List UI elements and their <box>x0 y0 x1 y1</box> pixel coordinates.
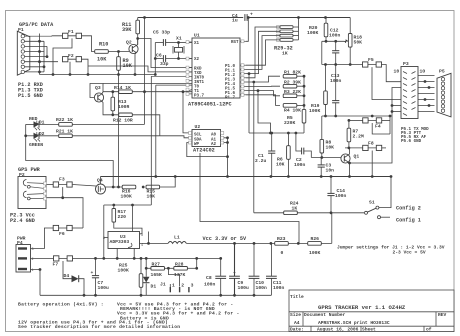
svg-text:220K: 220K <box>284 120 295 126</box>
svg-text:F3: F3 <box>59 177 65 183</box>
wire Q3 base/R14 <box>103 91 192 93</box>
trimmer R18 <box>348 34 352 48</box>
wire U1 INT0 to regulator shutdown <box>150 76 152 205</box>
wire R22 to vcc column <box>72 123 145 125</box>
junction dots P1 bus <box>38 40 41 43</box>
wire R12 right <box>132 115 160 136</box>
resistor R27 <box>151 267 165 271</box>
ground rail left <box>40 74 156 76</box>
resistor R2 <box>283 84 297 88</box>
svg-text:Q3: Q3 <box>95 85 101 91</box>
svg-text:T0: T0 <box>194 86 200 90</box>
svg-text:APRSTRAK.SCH print HO3013C: APRSTRAK.SCH print HO3013C <box>318 320 390 326</box>
long left power column <box>118 75 120 188</box>
resistor R23 <box>275 242 289 246</box>
svg-text:10K: 10K <box>97 57 107 63</box>
svg-text:R23: R23 <box>277 236 286 242</box>
svg-text:D1: D1 <box>151 284 157 290</box>
svg-text:Sheet: Sheet <box>362 327 376 333</box>
wire P4.3 to F6 <box>31 228 54 249</box>
svg-text:C5 33p: C5 33p <box>153 30 170 36</box>
SEC-BOTTOM <box>18 213 445 330</box>
SEC-POWER <box>16 225 284 296</box>
IC U3 ADP3303 <box>108 232 140 249</box>
resistor R22 <box>59 123 73 127</box>
U3 right pin out <box>140 232 169 244</box>
svg-text:33p: 33p <box>160 61 169 67</box>
svg-text:C8: C8 <box>206 275 212 281</box>
svg-text:Title: Title <box>290 294 304 300</box>
wire Q2 collector to R11 <box>136 40 137 45</box>
title text <box>290 294 447 333</box>
wire P3 left feed PTT <box>350 88 402 164</box>
resistor R10 <box>95 50 109 54</box>
wire S1 to config2 riser <box>379 177 391 208</box>
wire Q1 collector <box>348 148 349 155</box>
svg-text:R22 1K: R22 1K <box>56 117 73 123</box>
svg-text:10: 10 <box>394 69 400 75</box>
svg-text:100n: 100n <box>335 193 346 199</box>
svg-text:100R: 100R <box>118 104 129 110</box>
diode D1 <box>145 258 147 295</box>
svg-text:X2: X2 <box>194 58 200 62</box>
svg-text:100K: 100K <box>309 250 320 256</box>
svg-text:Document Number: Document Number <box>304 312 346 318</box>
SEC-RIGHTMID <box>0 0 1 1</box>
svg-text:P1.6: P1.6 <box>225 92 236 96</box>
wire X1 to U1 X1 pin <box>179 42 193 44</box>
svg-text:10n: 10n <box>326 168 335 174</box>
P1 pin wires to bus <box>25 34 59 75</box>
svg-text:3: 3 <box>141 233 143 237</box>
wire TXD from F2 <box>88 66 192 72</box>
U1 left pin names <box>194 42 205 99</box>
wire Q3 emitter to R12 <box>102 101 118 115</box>
resistor R4 <box>283 104 297 108</box>
wire wiper line y41 <box>322 41 345 64</box>
resistor R5 <box>302 109 306 123</box>
svg-text:1u: 1u <box>232 18 238 24</box>
svg-text:P1.2: P1.2 <box>225 74 236 78</box>
svg-text:SCL: SCL <box>194 134 202 138</box>
resistor R1 <box>283 74 297 78</box>
resistor R14 <box>119 90 133 94</box>
transistor Q1 <box>341 154 350 163</box>
diode D4 tap <box>63 261 72 279</box>
svg-text:100n: 100n <box>256 285 267 291</box>
wire LD2 anode <box>26 135 59 137</box>
capacitor C10 <box>249 276 260 278</box>
wire R15 right riser to rail <box>159 177 175 188</box>
wires P3 to P5 <box>418 76 435 112</box>
wire P2 pin1 to F3 <box>47 184 54 186</box>
resistor R6 <box>287 146 291 160</box>
svg-text:P3.7: P3.7 <box>194 95 205 99</box>
svg-text:F4: F4 <box>375 124 381 130</box>
svg-text:GPRS TRACKER ver 1.1 OZ4HZ: GPRS TRACKER ver 1.1 OZ4HZ <box>318 304 406 311</box>
ferrite F6 <box>53 225 73 230</box>
svg-text:Vcc 3.3V or 5V: Vcc 3.3V or 5V <box>203 236 247 242</box>
svg-text:R21 1K: R21 1K <box>56 128 73 134</box>
resistor R3 <box>283 94 297 98</box>
title block box <box>289 290 454 332</box>
svg-text:AT89C4051-12PC: AT89C4051-12PC <box>188 102 232 108</box>
config wire y212.8 <box>254 212 364 214</box>
svg-text:L1: L1 <box>174 235 180 241</box>
wire P4.2 input wire <box>31 257 54 259</box>
svg-text:SDA: SDA <box>194 138 202 142</box>
long vertical P1.6 column down <box>258 91 271 133</box>
resistor R9 <box>117 57 121 71</box>
resistor R19 <box>324 91 328 105</box>
svg-text:Config 2: Config 2 <box>396 206 421 212</box>
wire F1 to R10 <box>82 36 95 52</box>
U2 right pin boxes <box>221 132 224 145</box>
capacitor C11 <box>266 276 277 278</box>
svg-text:C6: C6 <box>156 53 162 59</box>
svg-text:P2.4 GND: P2.4 GND <box>10 218 35 224</box>
resistor R8 <box>320 139 324 153</box>
U1 right pin number boxes <box>241 40 244 96</box>
svg-text:of: of <box>426 327 432 333</box>
svg-text:P5: P5 <box>439 69 445 75</box>
R29-32 right bus to Vcc rail <box>293 18 299 40</box>
U2 right pins bus <box>224 138 228 177</box>
svg-text:A2: A2 <box>211 143 217 147</box>
wire WP loop <box>187 143 228 157</box>
svg-text:2.2M: 2.2M <box>353 134 364 140</box>
svg-text:See tracker description for mo: See tracker description for more detaile… <box>18 324 180 330</box>
base node wire <box>311 157 342 159</box>
ferrite F8 <box>362 145 382 150</box>
resistor R16 <box>122 185 136 189</box>
ladder right bus <box>297 76 305 110</box>
connector P1 DB9 <box>17 31 30 75</box>
svg-text:2: 2 <box>181 283 184 289</box>
wire RST to rail <box>246 18 248 42</box>
svg-text:R12 10R: R12 10R <box>113 118 133 124</box>
transistor Q3 <box>94 93 103 102</box>
svg-text:RXD: RXD <box>194 68 202 72</box>
svg-text:100K: 100K <box>309 108 320 114</box>
svg-text:0: 0 <box>281 250 284 256</box>
svg-text:F8: F8 <box>368 141 374 147</box>
jumper J1 feed <box>168 268 179 286</box>
U1 left pin number boxes <box>186 41 189 96</box>
wire Q4 out to R16 <box>106 186 123 188</box>
svg-text:Q2: Q2 <box>126 40 132 46</box>
svg-text:100u: 100u <box>98 285 109 291</box>
svg-text:R4 10K: R4 10K <box>284 108 301 114</box>
wire Q2 collector to RXD <box>138 39 192 68</box>
svg-text:Battery operation (4x1.5V) :: Battery operation (4x1.5V) : <box>18 301 104 307</box>
resistor R13 <box>111 97 115 111</box>
svg-text:INT1: INT1 <box>194 81 205 85</box>
resistor R28 <box>174 267 188 271</box>
svg-text:D4: D4 <box>64 273 70 279</box>
wire Q1 emitter <box>348 162 349 176</box>
SEC-GPSPWR <box>10 75 299 259</box>
wire R21 to sda column <box>72 135 160 137</box>
resistor R15 <box>146 185 160 189</box>
resistor R17 <box>112 209 116 223</box>
wire y116 <box>322 115 390 117</box>
resistor network R29-32 <box>274 26 293 57</box>
U1 right pin stubs <box>240 41 246 95</box>
ferrite F1 <box>53 33 82 74</box>
resistor R24 <box>284 211 298 215</box>
IC U1 AT89C4051 box <box>192 38 240 98</box>
svg-text:P1.0: P1.0 <box>225 65 236 69</box>
transistor Q4 (mosfet) <box>96 184 106 194</box>
svg-text:+: + <box>250 13 253 18</box>
svg-text:AT24C02: AT24C02 <box>193 148 215 154</box>
wire SCL riser <box>183 92 189 133</box>
svg-text:P1.1: P1.1 <box>225 70 236 74</box>
svg-text:2.2u: 2.2u <box>255 158 266 164</box>
resistor R20 <box>324 23 328 37</box>
ferrite F7 <box>53 256 73 261</box>
svg-text:REV: REV <box>438 312 447 318</box>
svg-text:100n: 100n <box>329 33 340 39</box>
SEC-MIDDLE <box>101 90 393 178</box>
svg-text:1K: 1K <box>292 206 298 212</box>
svg-text:U1: U1 <box>194 33 200 39</box>
svg-text:R27: R27 <box>152 262 161 268</box>
svg-text:165K: 165K <box>151 272 162 278</box>
wire Q3 collector <box>90 84 192 98</box>
Vcc top rail <box>138 17 351 19</box>
wire F3 to Q4 <box>73 185 96 187</box>
svg-text:2-3 Vcc = 5V: 2-3 Vcc = 5V <box>393 250 426 256</box>
svg-text:100K: 100K <box>118 268 129 274</box>
sense wire from x200 <box>200 153 299 243</box>
wire P4.1 to gnd rail <box>31 270 41 296</box>
U2 left pin boxes <box>189 132 192 145</box>
wire Q4 gate rail riser <box>100 177 102 185</box>
svg-text:50K: 50K <box>354 40 363 46</box>
svg-text:R10: R10 <box>99 42 108 48</box>
resistor R11 <box>136 20 140 34</box>
svg-text:Q1: Q1 <box>354 154 360 160</box>
U1 left pin stubs <box>151 42 192 94</box>
svg-text:P1.3: P1.3 <box>225 79 236 83</box>
svg-text:100n: 100n <box>273 285 284 291</box>
SEC-TOPMID <box>88 16 350 136</box>
long vertical P1.4 column down to config <box>253 82 255 213</box>
svg-text:100n: 100n <box>204 282 215 288</box>
wire Q2 emitter down to rail <box>135 53 136 75</box>
resistor R26 <box>308 242 322 246</box>
svg-text:1K: 1K <box>282 51 288 57</box>
LED common column <box>26 124 114 187</box>
audio rail y64.5 <box>322 64 362 66</box>
ferrite F2 <box>62 57 82 75</box>
resistor R21 <box>59 134 73 138</box>
svg-text:GREEN: GREEN <box>29 142 43 148</box>
wire U1 T0 to mid rail <box>155 85 157 176</box>
svg-text:1: 1 <box>172 283 175 289</box>
svg-text:39K: 39K <box>122 27 132 33</box>
bottom gnd rail <box>40 294 271 296</box>
capacitor C6 <box>163 55 165 62</box>
SEC-RIGHTMID2 <box>254 115 421 224</box>
main mid rail <box>101 176 392 178</box>
svg-text:P1.7: P1.7 <box>225 97 236 101</box>
svg-text:1O: 1O <box>420 69 426 75</box>
resistor R12 <box>119 113 133 117</box>
svg-text:F6: F6 <box>59 231 65 237</box>
svg-text:WP: WP <box>194 143 200 147</box>
transistor Q2 <box>129 44 138 53</box>
svg-text:100K: 100K <box>121 194 132 200</box>
wires U1 P1.4-P1.7 to DAC ladder <box>246 76 280 105</box>
svg-text:R1 82K: R1 82K <box>284 70 301 76</box>
svg-text:U2: U2 <box>195 124 201 130</box>
svg-text:A1: A1 <box>211 138 217 142</box>
svg-text:Jumper settings for J1 : 1-2 V: Jumper settings for J1 : 1-2 Vcc = 3.3V <box>337 245 445 251</box>
svg-text:INT0: INT0 <box>194 77 205 81</box>
ferrite F4 <box>362 118 382 123</box>
connector P2 <box>18 177 47 209</box>
ferrite F5 <box>362 62 382 67</box>
svg-text:R26: R26 <box>311 236 320 242</box>
svg-text:A4: A4 <box>294 320 300 326</box>
svg-text:X1: X1 <box>194 42 200 46</box>
wire F6 to P2 gnd riser <box>73 227 83 229</box>
resistor R7 <box>347 128 351 142</box>
wire P3 left feed RX <box>372 84 401 100</box>
SEC-P1 <box>17 22 155 99</box>
SEC-RIGHTTOP <box>307 18 451 164</box>
svg-text:Date:: Date: <box>290 327 304 333</box>
svg-text:A0: A0 <box>211 134 217 138</box>
SEC-U1 <box>151 13 306 213</box>
svg-text:Size: Size <box>290 312 301 318</box>
wire F5 to P3 <box>382 65 401 82</box>
svg-text:August 16, 2006: August 16, 2006 <box>317 327 359 333</box>
wire P2 gnd row <box>47 198 84 228</box>
wire LD1 anode <box>26 123 59 125</box>
svg-text:P1.5 GND: P1.5 GND <box>18 93 43 99</box>
svg-text:F7: F7 <box>53 262 59 268</box>
SEC-LEDS <box>24 116 160 187</box>
svg-text:GPS/PC DATA: GPS/PC DATA <box>19 22 54 28</box>
input wire <box>73 257 221 259</box>
svg-text:10K: 10K <box>276 162 285 168</box>
wire R10 to Q2 base <box>108 51 129 53</box>
wire config1 stub <box>381 216 391 218</box>
connector P4 <box>16 245 34 274</box>
wire SDA from R12/R21 <box>160 136 189 138</box>
wires U1 P1.0-P1.3 up to R29-32 <box>246 27 280 78</box>
svg-text:P1.4: P1.4 <box>225 83 236 87</box>
svg-text:Q4: Q4 <box>97 178 103 184</box>
svg-text:F2: F2 <box>68 53 74 59</box>
svg-text:TXD: TXD <box>194 72 202 76</box>
svg-text:X1: X1 <box>176 36 182 42</box>
Vcc wire to R23 <box>271 242 332 244</box>
wire R17 top to rail y205 <box>104 205 152 232</box>
svg-text:F1: F1 <box>68 29 74 35</box>
svg-text:3: 3 <box>191 283 194 289</box>
wire F2 right <box>82 59 88 74</box>
audio node wire y133 <box>249 132 304 134</box>
P3 internal pins <box>403 72 416 116</box>
IC U2 AT24C02 <box>192 130 221 147</box>
svg-text:S1: S1 <box>369 200 375 206</box>
long vertical P1.2 column down <box>248 74 250 133</box>
svg-text:Config 1: Config 1 <box>396 218 421 224</box>
svg-text:R3 22K: R3 22K <box>284 89 301 95</box>
wire R5 bottom <box>303 123 305 133</box>
U3 bottom pins <box>117 249 134 259</box>
diode D4 <box>72 275 79 282</box>
wire R26 riser <box>331 213 333 243</box>
wire P1 to F1 <box>52 35 62 37</box>
wire R17 bottom loop to U3 pin C <box>114 222 142 234</box>
node R10/R9/Q2 <box>117 50 120 53</box>
svg-text:RST: RST <box>231 41 239 45</box>
Vcc column <box>144 18 146 125</box>
svg-text:ADP3303: ADP3303 <box>110 239 130 245</box>
svg-text:R14 1K: R14 1K <box>114 85 131 91</box>
svg-text:F5: F5 <box>368 57 374 63</box>
svg-text:T1: T1 <box>194 90 200 94</box>
SEC-TITLEBLOCK <box>289 290 454 333</box>
svg-text:P1.5: P1.5 <box>225 88 236 92</box>
svg-text:100u: 100u <box>238 285 249 291</box>
svg-text:R28: R28 <box>175 262 184 268</box>
wire P3 extra taps <box>392 106 401 112</box>
svg-text:J1: J1 <box>160 282 166 288</box>
svg-text:R2 39K: R2 39K <box>284 80 301 86</box>
ferrite F3 <box>53 182 73 187</box>
wire L1 to Vcc node <box>186 242 271 244</box>
U3 left pin / input riser <box>104 205 108 258</box>
svg-text:100K: 100K <box>307 30 318 36</box>
svg-text:100n: 100n <box>294 162 305 168</box>
U1 right pin names <box>225 41 239 101</box>
svg-text:P5.6 GND: P5.6 GND <box>401 140 422 144</box>
svg-text:10K: 10K <box>147 194 156 200</box>
svg-text:10K: 10K <box>326 145 335 151</box>
svg-text:220: 220 <box>118 214 127 220</box>
